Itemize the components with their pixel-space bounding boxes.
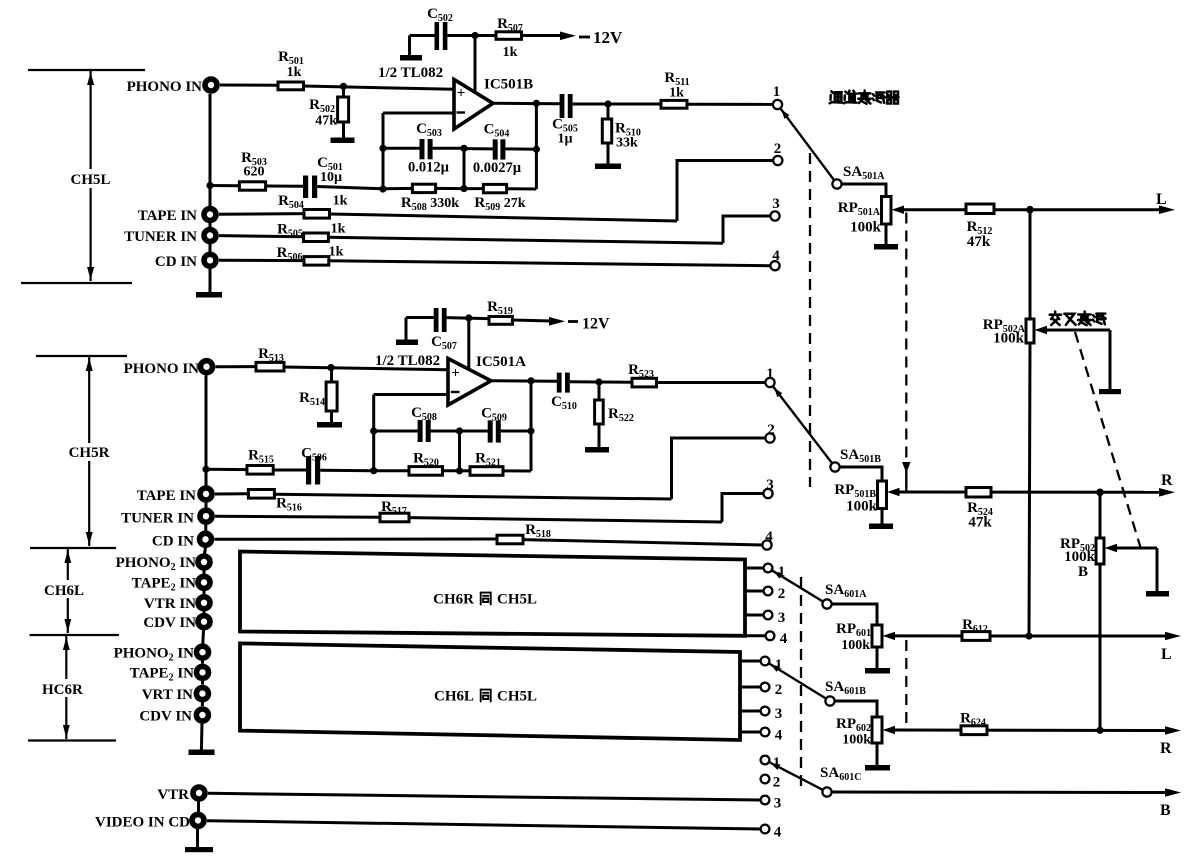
wire riser to contact 3: [723, 216, 771, 243]
svg-text:PHONO IN: PHONO IN: [124, 361, 200, 377]
svg-text:33k: 33k: [616, 136, 638, 151]
svg-text:4: 4: [780, 631, 788, 647]
svg-text:12V: 12V: [593, 28, 623, 47]
lower path: resistor R515: [206, 468, 247, 471]
svg-text:L: L: [1156, 191, 1167, 208]
switch SA601C wiper arm: [769, 762, 823, 790]
ground RP501A: [874, 244, 898, 250]
label 交叉衰减 (cross attenuation): [1050, 312, 1061, 326]
resistor R517: [215, 516, 380, 517]
wire dashed gang link RP501A-RP501B: [905, 213, 907, 462]
connector PHONO IN jack (CH5R): [201, 361, 213, 373]
resistor R501: [278, 82, 304, 90]
connector TAPE2 IN jack (HC6R): [197, 666, 209, 678]
resistor R511: [661, 100, 687, 108]
svg-text:47k: 47k: [967, 234, 991, 250]
svg-text:R: R: [1161, 472, 1173, 489]
svg-text:B: B: [1078, 564, 1088, 580]
wire C507 to R519 node: [447, 318, 489, 319]
ground RP601: [865, 668, 890, 674]
lower path: resistor R503: [210, 184, 239, 187]
svg-text:1/2 TL082: 1/2 TL082: [378, 65, 443, 81]
wire feedback middle rail: [463, 148, 466, 188]
svg-text:L: L: [1161, 646, 1172, 663]
connector CDV IN jack (HC6R): [196, 709, 208, 721]
potentiometer RP502A: [1026, 319, 1034, 343]
svg-text:2: 2: [774, 141, 782, 157]
svg-text:3: 3: [772, 196, 780, 212]
switch SA601C contact 4: [761, 825, 770, 834]
switch SA601B contact 4: [740, 731, 761, 734]
arrow L2 output: [1165, 632, 1181, 641]
wire B output line: [832, 791, 1169, 795]
wire SA501B wiper to RP501B: [840, 467, 883, 481]
wire C506 to feedback rail: [320, 469, 374, 472]
wire R519 to -12V: [512, 320, 551, 321]
resistor R502: [342, 86, 345, 97]
op-amp U1 IC501B: [454, 80, 493, 130]
wire power to op-amp: [474, 36, 477, 92]
wire SA501A wiper to RP501A: [841, 184, 886, 197]
svg-text:4: 4: [775, 728, 783, 744]
connector PHONO2 IN jack (HC6R): [197, 646, 209, 658]
switch SA601B contact 2: [740, 686, 761, 689]
ground R522: [585, 447, 609, 453]
wire riser to contact 2: [677, 161, 773, 222]
ground RP502 wiper: [1146, 591, 1169, 597]
svg-text:TAPE IN: TAPE IN: [138, 208, 197, 224]
wire R junction to RP502: [1099, 492, 1102, 538]
wire SA601B wiper to RP602: [834, 701, 877, 717]
wire R507 to -12V: [522, 34, 564, 37]
switch SA601A contact 3: [745, 614, 764, 617]
arrow R output: [1159, 488, 1175, 497]
wire RP502A bus: [1029, 210, 1032, 319]
node power (CH5R): [465, 314, 472, 321]
svg-text:0.0027µ: 0.0027µ: [473, 160, 522, 176]
node C505/R510: [604, 100, 611, 107]
svg-text:3: 3: [778, 610, 786, 626]
svg-text:2: 2: [778, 586, 786, 602]
resistor R516: [215, 492, 248, 495]
wire feedback left rail (CH5R): [372, 395, 375, 472]
capacitor C510: [557, 373, 562, 393]
resistor R506: [219, 259, 304, 262]
wire dashed gang link switch bank upper: [809, 153, 811, 487]
wire CD row to contact 4 (SA501B): [523, 540, 763, 545]
switch SA601C contact 1: [761, 756, 770, 765]
wire C501 to feedback rail: [317, 187, 383, 189]
svg-text:10µ: 10µ: [320, 170, 342, 185]
connector TUNER IN jack (CH5R): [200, 510, 212, 522]
capacitor C507: [406, 316, 434, 319]
capacitor C503: [383, 147, 420, 150]
wire R511 to contact 1: [687, 103, 773, 106]
svg-text:TAPE2 IN: TAPE2 IN: [130, 666, 194, 684]
svg-text:CDV IN: CDV IN: [139, 709, 192, 725]
node R2/RP502 junction: [1096, 727, 1103, 734]
wire TAPE row to riser: [330, 214, 678, 221]
dimension bracket CH5R top bar: [36, 355, 127, 357]
connector CD IN jack (CH5R): [200, 533, 212, 545]
wire R501 to op-amp +: [304, 86, 455, 89]
svg-text:100k: 100k: [842, 733, 871, 748]
svg-text:CD IN: CD IN: [152, 534, 194, 550]
resistor R521: [460, 469, 471, 472]
potentiometer RP502: [1096, 538, 1104, 564]
wire SA601A wiper to RP601: [832, 604, 878, 625]
dimension line CH5L: [89, 71, 91, 169]
svg-text:3: 3: [774, 796, 782, 812]
node L line / RP502A bus: [1026, 206, 1034, 214]
switch SA601A contact 4: [745, 634, 766, 637]
dimension line CH5R: [88, 357, 90, 443]
ground R514: [317, 422, 342, 428]
resistor R522: [598, 382, 601, 400]
ground bus CH6: [189, 750, 215, 756]
connector TAPE IN jack: [204, 209, 216, 221]
svg-text:1k: 1k: [503, 45, 518, 60]
capacitor C506: [273, 469, 306, 472]
resistor R624: [961, 726, 987, 735]
svg-text:+: +: [451, 366, 460, 382]
potentiometer RP602: [872, 717, 882, 743]
svg-text:1/2 TL082: 1/2 TL082: [375, 353, 440, 369]
svg-text:TUNER IN: TUNER IN: [124, 229, 197, 245]
svg-text:R508 330k: R508 330k: [401, 195, 459, 213]
block CH6L same-as CH5L: [240, 643, 740, 740]
svg-text:100k: 100k: [850, 220, 882, 236]
ground C502: [400, 55, 422, 61]
svg-text:CDV IN: CDV IN: [143, 615, 196, 631]
capacitor C508: [374, 430, 418, 433]
wire dashed gang link RP601-RP602: [905, 640, 907, 727]
wire PHONO to R513: [216, 365, 257, 368]
resistor R513: [256, 362, 284, 371]
wire feedback right rail: [535, 103, 538, 189]
wire feedback left rail: [382, 113, 385, 189]
wire RP502A to L2 junction: [1029, 343, 1030, 636]
resistor R514: [330, 368, 333, 382]
potentiometer RP601: [872, 625, 882, 647]
arrow L output: [1159, 205, 1175, 214]
connector PHONO2 IN jack: [198, 556, 210, 568]
svg-text:IC501B: IC501B: [484, 77, 533, 93]
svg-text:VTR: VTR: [157, 787, 189, 803]
switch SA601A contact 2: [745, 590, 764, 593]
connector VRT IN jack: [196, 688, 208, 700]
svg-text:1k: 1k: [287, 65, 302, 80]
resistor R504: [219, 212, 304, 216]
ground RP602: [865, 765, 890, 771]
svg-text:R509 27k: R509 27k: [474, 195, 525, 213]
svg-text:CH5R: CH5R: [69, 445, 110, 461]
svg-text:HC6R: HC6R: [42, 682, 83, 698]
node lower-path tap (CH5R): [202, 466, 209, 473]
switch SA601B wiper arm: [769, 663, 826, 698]
svg-text:VTR IN: VTR IN: [144, 596, 196, 612]
resistor R510: [607, 104, 610, 119]
wire feedback right rail (CH5R): [530, 381, 533, 471]
wire riser to contact 2 (SA501B): [672, 438, 766, 499]
svg-text:CH5L: CH5L: [70, 172, 110, 188]
dimension bracket CH5R bottom bar: [30, 547, 116, 549]
wire TUNER row to riser: [328, 237, 723, 243]
wire TAPE row to riser (CH5R): [274, 494, 671, 499]
resistor R509: [464, 187, 483, 190]
svg-text:47k: 47k: [315, 114, 337, 129]
svg-text:TAPE2 IN: TAPE2 IN: [132, 576, 196, 594]
svg-text:TUNER IN: TUNER IN: [121, 511, 194, 527]
resistor R518: [215, 538, 498, 541]
label -12V: [579, 36, 590, 39]
svg-text:CD IN: CD IN: [155, 254, 197, 270]
svg-text:3: 3: [775, 706, 783, 722]
svg-text:IC501A: IC501A: [476, 354, 526, 370]
capacitor C505: [560, 94, 565, 118]
switch SA601C contact 3: [761, 796, 770, 805]
ground VTR/VIDEO bus: [185, 847, 213, 852]
connector VIDEO IN CD jack: [192, 814, 204, 826]
connector CD IN jack: [204, 254, 216, 266]
wire C502 to R507 node: [447, 34, 496, 37]
switch SA601A contact 1: [745, 567, 764, 570]
svg-text:1k: 1k: [333, 194, 348, 209]
switch SA501A wiper arm: [780, 108, 836, 183]
svg-text:100k: 100k: [841, 638, 870, 653]
svg-text:CH5L: CH5L: [497, 592, 537, 608]
wire minus input (CH5R): [374, 393, 448, 396]
svg-text:CH6R: CH6R: [433, 592, 474, 608]
wire ground bus CH5R/CH6: [205, 376, 208, 486]
wire riser to contact 3 (SA501B): [722, 494, 764, 523]
arrow R2 output: [1165, 726, 1181, 735]
resistor R520: [374, 469, 409, 472]
ground R510: [595, 164, 621, 170]
wire PHONO to R501: [220, 84, 278, 87]
connector CDV IN jack: [198, 616, 210, 628]
svg-text:CH5L: CH5L: [497, 689, 537, 705]
node R502 tap: [340, 83, 347, 90]
wire R513 to op-amp +: [284, 367, 448, 370]
block CH6R same-as CH5L: [240, 552, 745, 636]
svg-text:47k: 47k: [968, 515, 992, 531]
svg-text:2: 2: [773, 775, 781, 791]
svg-text:100k: 100k: [993, 331, 1025, 347]
resistor R508: [383, 187, 412, 190]
svg-text:VIDEO IN CD: VIDEO IN CD: [95, 815, 190, 831]
resistor R505: [219, 236, 304, 237]
switch SA601B contact 3: [740, 710, 761, 713]
wire VTR to SA601C contact 3: [208, 793, 761, 800]
capacitor C501: [266, 185, 303, 188]
svg-text:CH6L: CH6L: [44, 583, 84, 599]
capacitor C509: [460, 430, 489, 433]
connector VTR IN jack: [198, 597, 210, 609]
svg-text:620: 620: [244, 165, 265, 180]
ground R502: [331, 138, 355, 144]
resistor R612: [962, 632, 990, 641]
svg-text:CH6L: CH6L: [434, 689, 474, 705]
resistor R523: [632, 378, 657, 387]
svg-text:R: R: [1160, 740, 1172, 757]
node L2/bus junction: [1025, 632, 1032, 639]
resistor R524: [966, 488, 991, 498]
wire dashed gang link RP502A-RP502: [1075, 332, 1141, 549]
connector TUNER IN jack: [204, 230, 216, 242]
svg-text:1k: 1k: [329, 245, 344, 260]
node lower-path tap: [206, 182, 213, 189]
wire R output line: [897, 491, 1161, 494]
svg-text:1: 1: [773, 84, 781, 100]
resistor R507: [496, 32, 522, 40]
resistor R512: [966, 204, 994, 214]
wire TUNER row to riser (CH5R): [409, 518, 722, 522]
node R514 tap: [327, 364, 334, 371]
svg-text:2: 2: [775, 682, 783, 698]
connector VTR jack: [193, 787, 205, 799]
svg-text:100k: 100k: [846, 499, 878, 515]
svg-text:PHONO IN: PHONO IN: [127, 79, 203, 95]
dimension bracket HC6R bottom bar: [28, 739, 116, 741]
wire RP502 to R2 junction: [1099, 564, 1102, 730]
dimension line CH6L: [67, 549, 69, 580]
ground C507: [396, 340, 418, 346]
switch SA601C contact 2: [761, 775, 770, 784]
wire L2 output line: [893, 634, 1168, 637]
connector PHONO IN jack: [205, 79, 217, 91]
dimension bracket CH5L top bar: [28, 69, 145, 71]
wire R2 output line: [893, 729, 1168, 733]
wire L output line: [902, 208, 1161, 211]
capacitor C502: [410, 34, 436, 37]
wire op-amp output: [493, 102, 560, 106]
switch SA501B wiper arm: [773, 386, 834, 466]
potentiometer RP501A: [882, 197, 892, 225]
switch SA601B contact 1: [740, 660, 761, 663]
ground RP502A wiper: [1099, 389, 1121, 394]
wire VTR/VIDEO bus: [197, 802, 200, 813]
svg-text:1k: 1k: [331, 222, 346, 237]
wire op-amp output (CH5R): [491, 379, 557, 383]
ground RP501B: [869, 524, 893, 530]
svg-text:PHONO2 IN: PHONO2 IN: [114, 646, 195, 664]
svg-text:1k: 1k: [669, 86, 684, 101]
switch SA601A wiper arm: [772, 570, 823, 601]
wire VIDEO to SA601C contact 4: [207, 821, 761, 829]
wire dashed gang link switch bank lower: [800, 577, 802, 790]
resistor R519: [489, 317, 512, 325]
node power: [471, 32, 478, 39]
ground bus CH5L: [196, 292, 222, 298]
dimension bracket CH5L bottom bar: [21, 282, 132, 284]
svg-text:0.012µ: 0.012µ: [408, 160, 450, 176]
label -12V (CH5R): [568, 320, 578, 323]
svg-text:TAPE IN: TAPE IN: [137, 488, 196, 504]
arrow B output: [1165, 788, 1181, 797]
svg-text:VRT IN: VRT IN: [142, 687, 193, 703]
svg-text:PHONO2 IN: PHONO2 IN: [116, 555, 197, 573]
connector TAPE2 IN jack: [198, 576, 210, 588]
svg-text:4: 4: [774, 825, 782, 841]
wire R523 to contact 1 (SA501B): [657, 381, 766, 384]
svg-text:1µ: 1µ: [557, 132, 572, 147]
wire minus input: [383, 112, 454, 115]
connector TAPE IN jack (CH5R): [200, 488, 212, 500]
potentiometer RP501B: [878, 481, 887, 509]
svg-text:B: B: [1160, 802, 1171, 819]
wire feedback middle rail (CH5R): [458, 431, 461, 471]
wire CD row to contact 4: [329, 261, 771, 266]
svg-text:100k: 100k: [1064, 549, 1096, 565]
capacitor C504: [464, 147, 493, 150]
node C510/R522: [595, 378, 602, 385]
svg-text:+: +: [457, 86, 466, 102]
op-amp U2 IC501A: [448, 359, 491, 406]
wire ground bus CH5L: [209, 94, 212, 206]
svg-text:12V: 12V: [582, 316, 610, 333]
dimension bracket CH6L bottom bar: [30, 634, 119, 636]
label 通道衰减器 (channel attenuator): [830, 91, 843, 103]
dimension line HC6R: [65, 636, 67, 679]
node R line / RP502 junction: [1096, 489, 1104, 497]
wire power to op-amp (CH5R): [467, 318, 470, 368]
